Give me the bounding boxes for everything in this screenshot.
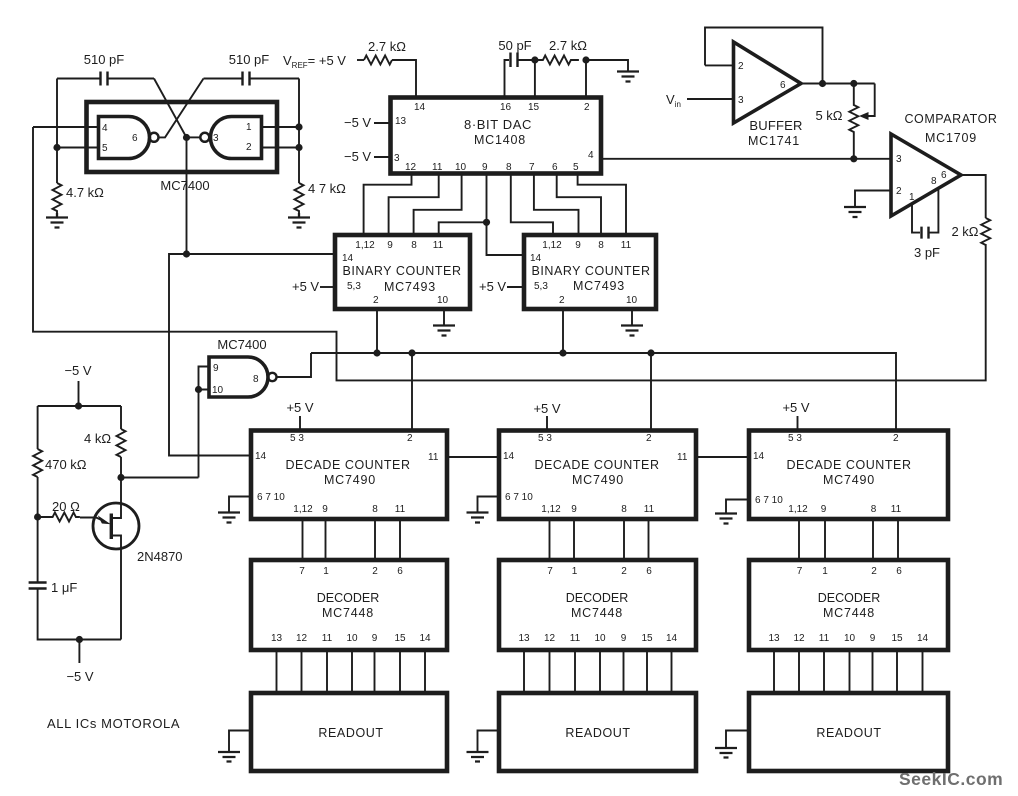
- svg-text:3: 3: [394, 153, 400, 164]
- node U7 input junction: [195, 386, 202, 393]
- svg-text:8: 8: [372, 504, 378, 515]
- svg-text:9: 9: [213, 363, 219, 374]
- svg-text:7: 7: [797, 566, 803, 577]
- wire buffer output: [801, 83, 875, 85]
- svg-text:9: 9: [621, 633, 627, 644]
- svg-text:5: 5: [102, 143, 108, 154]
- IC box U13 MC7448 decoder 3: [749, 560, 948, 650]
- svg-text:13: 13: [395, 116, 407, 127]
- wire +5V stem DC3: [797, 416, 799, 431]
- resistor R3 2.7k body: [364, 56, 392, 65]
- svg-text:9: 9: [821, 504, 827, 515]
- wire DC2 pin9 to decoder2 pin1: [573, 519, 575, 560]
- ground below R1: [46, 213, 68, 228]
- svg-text:MC7490: MC7490: [324, 473, 376, 487]
- svg-text:6: 6: [780, 80, 786, 91]
- node emitter branch: [34, 513, 41, 520]
- svg-text:5 3: 5 3: [538, 433, 552, 444]
- svg-text:2: 2: [871, 566, 877, 577]
- wire DAC pin2 riser: [585, 60, 587, 98]
- capacitor C1 510pF: [101, 72, 108, 86]
- wire DC3 pins 6,7,10 to ground: [726, 500, 749, 514]
- svg-text:3: 3: [213, 133, 219, 144]
- svg-text:1: 1: [323, 566, 329, 577]
- node bus A / DC2 pin2 drop: [647, 349, 654, 356]
- IC box U10 MC7490 decade counter 3: [749, 431, 948, 520]
- wire DC2 pin11 to DC3 pin14: [696, 456, 749, 458]
- svg-text:9: 9: [571, 504, 577, 515]
- wire DC1 pin11 to decoder1 pin6: [399, 519, 401, 560]
- display box readout 2: [499, 693, 696, 771]
- ground at DC3: [715, 514, 737, 524]
- node clock distribution: [183, 250, 190, 257]
- wire diagonal C2 to U1a output: [159, 79, 204, 138]
- svg-text:+5 V: +5 V: [292, 279, 319, 294]
- wire buffer feedback loop: [705, 28, 823, 84]
- IC box U2 MC1408 DAC: [391, 98, 602, 174]
- svg-text:15: 15: [528, 102, 540, 113]
- node flip-flop output: [183, 134, 190, 141]
- wire DAC pin7 to BC2 pin9: [534, 174, 579, 236]
- wire flip-flop output down: [186, 141, 188, 254]
- ground at readout2: [467, 752, 489, 762]
- svg-text:8: 8: [621, 504, 627, 515]
- svg-text:−5 V: −5 V: [64, 363, 91, 378]
- wire -5V top stem: [78, 381, 80, 406]
- svg-text:MC1709: MC1709: [925, 131, 977, 145]
- wire clock to DC1 pin14: [169, 254, 251, 456]
- svg-text:MC7490: MC7490: [823, 473, 875, 487]
- svg-text:10: 10: [626, 295, 638, 306]
- resistor R6 2k body: [981, 218, 990, 245]
- wire C2 left lead: [204, 78, 243, 80]
- wire pin2 stub: [705, 64, 734, 66]
- svg-text:2: 2: [584, 102, 590, 113]
- wire +5V dash BC1: [320, 286, 335, 288]
- svg-text:11: 11: [644, 504, 655, 515]
- svg-text:9: 9: [482, 162, 488, 173]
- ground at DAC top: [617, 72, 639, 82]
- wire drop to DC2 pin2: [650, 353, 652, 431]
- svg-text:11: 11: [395, 504, 406, 515]
- capacitor C5 3pF plates: [922, 227, 929, 239]
- ground at readout3: [715, 748, 737, 758]
- wires decoder1 pins 13,12,11,10,9,15,14 to readout1: [277, 650, 426, 693]
- wire left vertical C1 to R1: [56, 79, 58, 184]
- svg-text:1,12: 1,12: [355, 240, 375, 251]
- svg-text:11: 11: [621, 240, 632, 251]
- node output/pot top: [850, 80, 857, 87]
- wire DC3 pin9 to decoder3 pin1: [824, 519, 826, 560]
- svg-text:1,12: 1,12: [542, 240, 562, 251]
- wire DC1 pin11 to DC2 pin14: [447, 456, 499, 458]
- svg-text:12: 12: [405, 162, 417, 173]
- svg-text:4 7 kΩ: 4 7 kΩ: [308, 181, 346, 196]
- svg-text:20 Ω: 20 Ω: [52, 499, 80, 514]
- wire DAC pin16 riser: [505, 60, 510, 98]
- svg-text:8·BIT DAC: 8·BIT DAC: [464, 117, 532, 132]
- resistor R4 2.7k body: [535, 56, 579, 65]
- svg-text:MC1408: MC1408: [474, 133, 526, 147]
- svg-text:7: 7: [547, 566, 553, 577]
- svg-text:12: 12: [296, 633, 308, 644]
- svg-text:11: 11: [322, 633, 333, 644]
- svg-text:3 pF: 3 pF: [914, 245, 940, 260]
- wire base1 to bottom rail: [111, 536, 121, 640]
- svg-text:10: 10: [212, 385, 224, 396]
- wire feedback bus B: [33, 127, 986, 380]
- ground at comparator pin2: [844, 207, 866, 217]
- IC box U12 MC7448 decoder 2: [499, 560, 696, 650]
- wire node to gate input riser: [121, 477, 199, 479]
- svg-text:13: 13: [768, 633, 780, 644]
- wire diagonal C1 to U1b output: [154, 79, 187, 138]
- wire R3 to DAC pin14: [392, 60, 416, 98]
- wires decoder2 pins to readout2: [524, 650, 672, 693]
- potentiometer R5 wiper arrowhead: [859, 112, 869, 120]
- svg-text:5 3: 5 3: [788, 433, 802, 444]
- svg-text:11: 11: [433, 240, 444, 251]
- svg-text:13: 13: [271, 633, 283, 644]
- wire top-left to C1: [57, 78, 100, 80]
- svg-text:12: 12: [793, 633, 805, 644]
- svg-text:3: 3: [738, 95, 744, 106]
- wire -5V stub pin13: [374, 122, 391, 124]
- svg-text:5,3: 5,3: [347, 281, 361, 292]
- wire pin9 node to BC2 pin14: [487, 222, 525, 255]
- svg-text:1: 1: [572, 566, 578, 577]
- svg-text:14: 14: [917, 633, 929, 644]
- svg-text:9: 9: [387, 240, 393, 251]
- wire left rail upper: [37, 406, 39, 449]
- svg-text:2: 2: [372, 566, 378, 577]
- svg-text:2: 2: [893, 433, 899, 444]
- svg-text:BUFFER: BUFFER: [749, 118, 802, 133]
- svg-text:2: 2: [738, 61, 744, 72]
- wire DAC pin4 to comparator pin3: [601, 158, 891, 160]
- svg-text:11: 11: [428, 452, 439, 463]
- svg-text:5 kΩ: 5 kΩ: [815, 108, 842, 123]
- ground at DC2: [467, 513, 489, 523]
- svg-text:BINARY COUNTER: BINARY COUNTER: [342, 264, 461, 278]
- svg-text:MC7448: MC7448: [823, 606, 875, 620]
- wire top rail: [38, 405, 121, 407]
- svg-text:3: 3: [896, 154, 902, 165]
- svg-text:8: 8: [598, 240, 604, 251]
- wire DAC pin6 to BC2 pin8: [557, 174, 601, 236]
- svg-text:470 kΩ: 470 kΩ: [45, 457, 87, 472]
- wire DAC pin9 down: [486, 174, 488, 223]
- IC outline MC7400 (astable): [87, 102, 278, 172]
- svg-text:14: 14: [530, 253, 542, 264]
- wire VREF to R3: [357, 59, 364, 61]
- wire DAC pin12 to BC1 pin1,12: [364, 174, 412, 236]
- svg-text:MC7400: MC7400: [160, 178, 209, 193]
- svg-text:2: 2: [246, 142, 252, 153]
- svg-text:+5 V: +5 V: [533, 401, 560, 416]
- resistor R1 4.7k body: [53, 183, 62, 213]
- svg-text:510 pF: 510 pF: [84, 52, 125, 67]
- wire C1 to diagonal: [108, 78, 154, 80]
- wire U1b output to node: [187, 136, 201, 138]
- node pin15 top: [531, 56, 538, 63]
- wire C2 to right vertical: [250, 78, 299, 80]
- svg-text:4: 4: [588, 150, 594, 161]
- svg-text:ALL ICs MOTOROLA: ALL ICs MOTOROLA: [47, 716, 180, 731]
- wire pin9 node to BC1 pin11: [439, 222, 487, 235]
- wire clock bus A: [311, 353, 896, 431]
- wire U7 input tie pins 9-10: [199, 367, 210, 390]
- svg-text:8: 8: [253, 374, 259, 385]
- output bubble U1a: [150, 133, 159, 142]
- svg-text:14: 14: [666, 633, 678, 644]
- output bubble U7: [268, 373, 276, 381]
- svg-text:9: 9: [322, 504, 328, 515]
- svg-text:1: 1: [822, 566, 828, 577]
- node -5V top stem: [75, 402, 82, 409]
- wire +5V stem DC1: [299, 416, 301, 431]
- wire comparator output: [961, 175, 986, 218]
- ground below R2: [288, 213, 310, 228]
- wire Vin to pin3: [687, 98, 734, 100]
- wire DC3 pin1,12 to decoder3 pin7: [798, 519, 800, 560]
- wire DC1 pin1,12 to decoder1 pin7: [302, 519, 304, 560]
- svg-text:11: 11: [432, 162, 443, 173]
- capacitor C3 50pF: [511, 53, 518, 68]
- emitter arrowhead Q1: [98, 515, 111, 524]
- transistor Q1 base bar: [110, 514, 113, 540]
- IC box U9 MC7490 decade counter 2: [499, 431, 696, 520]
- node DAC pin9 branch: [483, 219, 490, 226]
- svg-text:DECADE COUNTER: DECADE COUNTER: [786, 458, 911, 472]
- wire +5V stem DC2: [546, 416, 548, 431]
- svg-text:READOUT: READOUT: [816, 726, 881, 740]
- NAND gate U1b (mirrored): [211, 117, 262, 159]
- svg-text:10: 10: [594, 633, 606, 644]
- svg-text:7: 7: [529, 162, 535, 173]
- svg-text:16: 16: [500, 102, 512, 113]
- svg-text:11: 11: [677, 452, 688, 463]
- svg-text:11: 11: [570, 633, 581, 644]
- svg-text:2N4870: 2N4870: [137, 549, 183, 564]
- svg-text:2.7 kΩ: 2.7 kΩ: [549, 38, 587, 53]
- svg-text:6 7 10: 6 7 10: [257, 492, 285, 503]
- resistor R7 470k body: [33, 449, 42, 477]
- svg-text:13: 13: [518, 633, 530, 644]
- svg-text:10: 10: [437, 295, 449, 306]
- svg-text:12: 12: [544, 633, 556, 644]
- wire +5V dash BC2: [507, 286, 524, 288]
- svg-text:MC1741: MC1741: [748, 134, 800, 148]
- resistor R9 20ohm body: [38, 513, 80, 522]
- wire DC2 pins 6,7,10 to ground: [478, 497, 500, 513]
- wire -5V bottom stem: [78, 640, 80, 664]
- wire readout2 ground stem: [478, 731, 500, 752]
- wire DC3 pin11 to decoder3 pin6: [897, 519, 899, 560]
- wire DC1 pin8 to decoder1 pin2: [374, 519, 376, 560]
- svg-text:1,12: 1,12: [293, 504, 313, 515]
- svg-text:1: 1: [246, 122, 252, 133]
- svg-text:510 pF: 510 pF: [229, 52, 270, 67]
- wires decoder3 pins to readout3: [774, 650, 923, 693]
- wire pin5 input U1a: [57, 147, 99, 149]
- wire base2 into UJT: [111, 478, 121, 519]
- wire pin4 input U1a: [33, 126, 99, 128]
- op-amp U4 MC1709 comparator: [891, 134, 961, 216]
- svg-text:DECODER: DECODER: [317, 591, 380, 605]
- svg-text:MC7493: MC7493: [573, 279, 625, 293]
- wire BC2 pin10 to ground: [631, 309, 633, 325]
- svg-text:6: 6: [397, 566, 403, 577]
- node base2 / gate drive: [117, 474, 124, 481]
- svg-text:READOUT: READOUT: [565, 726, 630, 740]
- svg-text:1,12: 1,12: [541, 504, 561, 515]
- node bus A / BC1 pin2: [373, 349, 380, 356]
- svg-text:1: 1: [909, 192, 915, 203]
- wire DC1 pin9 to decoder1 pin1: [325, 519, 327, 560]
- svg-text:2 kΩ: 2 kΩ: [951, 224, 978, 239]
- svg-text:MC7448: MC7448: [322, 606, 374, 620]
- node pin2 junction: [295, 144, 302, 151]
- potentiometer R5 5k body: [849, 84, 858, 159]
- svg-text:11: 11: [891, 504, 902, 515]
- svg-text:READOUT: READOUT: [318, 726, 383, 740]
- svg-text:COMPARATOR: COMPARATOR: [904, 112, 997, 126]
- svg-text:14: 14: [753, 451, 765, 462]
- wire DAC pin11 to BC1 pin9: [389, 174, 439, 236]
- wire 4k branch top: [120, 406, 122, 429]
- wire -5V stub pin3: [374, 156, 391, 158]
- svg-text:1 μF: 1 μF: [51, 580, 77, 595]
- wire DC2 pin1,12 to decoder2 pin7: [549, 519, 551, 560]
- svg-text:7: 7: [299, 566, 305, 577]
- svg-text:+5 V: +5 V: [286, 400, 313, 415]
- svg-text:9: 9: [372, 633, 378, 644]
- wire DAC pin15 riser: [534, 60, 536, 98]
- NAND gate U1a: [99, 117, 150, 159]
- svg-text:8: 8: [871, 504, 877, 515]
- svg-text:5: 5: [573, 162, 579, 173]
- wire DC1 pins 6,7,10 to ground: [229, 497, 251, 513]
- svg-text:+5 V: +5 V: [479, 279, 506, 294]
- resistor R8 4k body: [117, 429, 126, 457]
- svg-text:MC7493: MC7493: [384, 280, 436, 294]
- wire C3 to pin15 node: [519, 59, 535, 61]
- svg-text:2: 2: [646, 433, 652, 444]
- wire pin2 to ground: [855, 191, 891, 207]
- wire U7 output to bus A: [277, 353, 312, 377]
- node pin2 top: [582, 56, 589, 63]
- wire DAC pin10 to BC1 pin8: [414, 174, 462, 236]
- wire U7 input from oscillator: [198, 390, 200, 478]
- svg-text:2: 2: [559, 295, 565, 306]
- ground below BC2 pin10: [621, 326, 643, 336]
- IC box U6 MC7493 binary counter 2: [524, 235, 656, 309]
- svg-text:10: 10: [455, 162, 467, 173]
- wire left rail lower: [38, 589, 121, 640]
- wire emitter lead: [80, 518, 101, 520]
- svg-text:−5 V: −5 V: [344, 149, 371, 164]
- wire pins1-2 U1b right: [262, 127, 300, 148]
- svg-text:14: 14: [503, 451, 515, 462]
- svg-text:6: 6: [941, 170, 947, 181]
- svg-text:1,12: 1,12: [788, 504, 808, 515]
- svg-text:4.7 kΩ: 4.7 kΩ: [66, 185, 104, 200]
- ground below BC1 pin10: [433, 326, 455, 336]
- svg-text:14: 14: [414, 102, 426, 113]
- IC box U11 MC7448 decoder 1: [251, 560, 447, 650]
- svg-text:6: 6: [132, 133, 138, 144]
- wire DC2 pin11 to decoder2 pin6: [648, 519, 650, 560]
- svg-text:−5 V: −5 V: [344, 115, 371, 130]
- svg-text:DECADE COUNTER: DECADE COUNTER: [534, 458, 659, 472]
- svg-text:2.7 kΩ: 2.7 kΩ: [368, 39, 406, 54]
- wire readout1 ground stem: [229, 731, 251, 752]
- svg-text:DECODER: DECODER: [566, 591, 629, 605]
- IC box U5 MC7493 binary counter 1: [335, 235, 470, 309]
- svg-text:14: 14: [255, 451, 267, 462]
- wire DC2 pin8 to decoder2 pin2: [623, 519, 625, 560]
- display box readout 3: [749, 693, 948, 771]
- svg-text:10: 10: [844, 633, 856, 644]
- svg-text:6 7 10: 6 7 10: [505, 492, 533, 503]
- ground at readout1: [218, 752, 240, 762]
- svg-text:MC7490: MC7490: [572, 473, 624, 487]
- potentiometer R5 wiper arm: [866, 84, 875, 117]
- op-amp U3 MC1741: [734, 42, 802, 123]
- svg-text:11: 11: [819, 633, 830, 644]
- svg-text:DECODER: DECODER: [818, 591, 881, 605]
- svg-text:15: 15: [891, 633, 903, 644]
- svg-text:6: 6: [896, 566, 902, 577]
- svg-text:15: 15: [394, 633, 406, 644]
- node -5V bottom stem: [76, 636, 83, 643]
- wire R8 to base2 node: [120, 457, 122, 478]
- svg-text:2: 2: [896, 186, 902, 197]
- display box readout 1: [251, 693, 447, 771]
- svg-text:9: 9: [870, 633, 876, 644]
- svg-text:9: 9: [575, 240, 581, 251]
- svg-text:−5 V: −5 V: [66, 669, 93, 684]
- wire DC3 pin8 to decoder3 pin2: [872, 519, 874, 560]
- wire readout3 ground stem: [726, 731, 749, 748]
- output bubble U1b: [200, 133, 209, 142]
- svg-text:15: 15: [641, 633, 653, 644]
- svg-text:+5 V: +5 V: [782, 400, 809, 415]
- wire DAC pin5 to BC2 pin11: [578, 174, 626, 236]
- wire right vertical C2 to R2: [298, 79, 300, 184]
- node pin1 junction: [295, 123, 302, 130]
- svg-text:MC7400: MC7400: [217, 337, 266, 352]
- svg-text:MC7448: MC7448: [571, 606, 623, 620]
- svg-text:6 7 10: 6 7 10: [755, 495, 783, 506]
- transistor Q1 2N4870 circle: [93, 503, 139, 549]
- svg-text:10: 10: [346, 633, 358, 644]
- svg-text:6: 6: [646, 566, 652, 577]
- svg-text:2: 2: [407, 433, 413, 444]
- svg-text:5 3: 5 3: [290, 433, 304, 444]
- resistor R2 4.7k body: [295, 183, 304, 213]
- svg-text:14: 14: [419, 633, 431, 644]
- wire DAC pin8 to BC2 pin1,12: [511, 174, 553, 236]
- svg-text:5,3: 5,3: [534, 281, 548, 292]
- svg-text:8: 8: [931, 176, 937, 187]
- svg-text:2: 2: [373, 295, 379, 306]
- wire BC1 pin10 to ground: [443, 309, 445, 325]
- svg-text:8: 8: [411, 240, 417, 251]
- ground at DC1: [218, 513, 240, 523]
- wire BC2 pin2 drop: [562, 309, 564, 353]
